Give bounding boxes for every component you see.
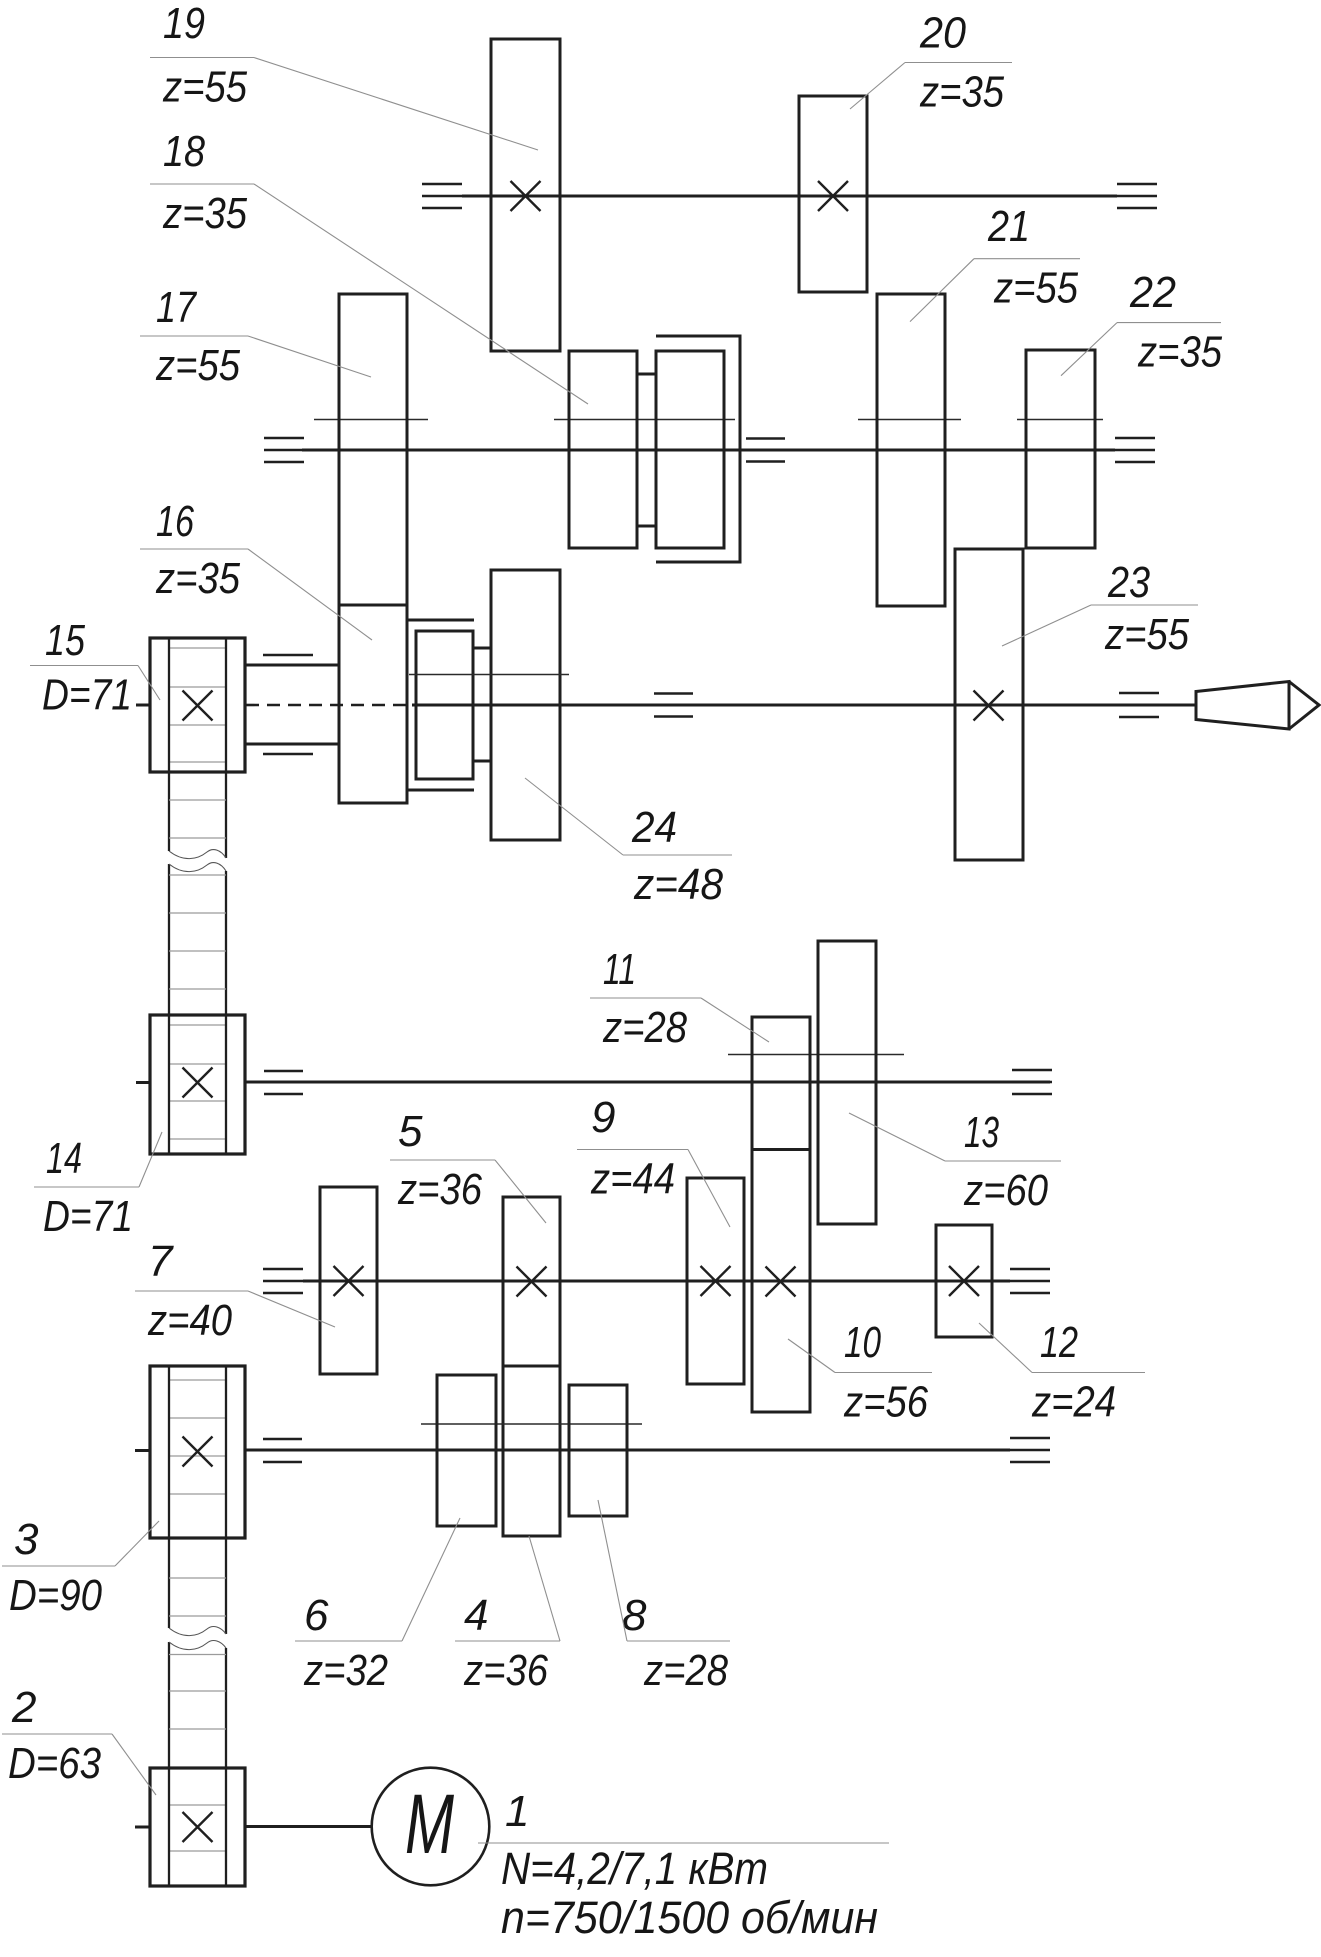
svg-text:18: 18 (163, 127, 205, 176)
pulley 14 inner line c (169, 1100, 226, 1102)
spindle cone (1196, 682, 1319, 730)
gear 18 (z=35) (569, 351, 637, 548)
label 18 z=35 (150, 127, 588, 404)
svg-text:M: M (405, 1777, 454, 1871)
svg-text:z=32: z=32 (303, 1646, 388, 1695)
bearing X of gear 9 (701, 1266, 731, 1296)
clutch link upper 18 (637, 373, 656, 376)
bearing X of gear 10 (766, 1267, 796, 1297)
pulley 2 inner line b (169, 1850, 226, 1852)
gear 22 (z=35) (1026, 350, 1095, 548)
shaft III dashed centreline (246, 704, 412, 707)
bearing X of gear 20 (818, 181, 848, 211)
divider gear 5 / gear 4 (503, 1365, 560, 1368)
gear 19 (z=55) (491, 39, 560, 351)
svg-text:z=48: z=48 (633, 860, 723, 909)
shaft I left bearing (422, 184, 462, 208)
pulley 15 inner line a (169, 647, 226, 649)
belt I rung f (169, 988, 226, 990)
motor M1 circle (372, 1768, 490, 1886)
motor letter M (405, 1777, 454, 1871)
belt II right edge lower (225, 1648, 227, 1886)
motor shaft left stub (135, 1826, 150, 1829)
bearing X of pulley 15 (183, 691, 213, 721)
svg-text:22: 22 (1129, 268, 1176, 317)
svg-text:7: 7 (148, 1237, 174, 1286)
svg-text:D=71: D=71 (43, 1192, 133, 1241)
svg-text:z=24: z=24 (1031, 1378, 1116, 1427)
svg-text:20: 20 (919, 9, 966, 58)
label 4 z=36 (455, 1536, 560, 1695)
bearing X of gear 12 (949, 1266, 979, 1296)
pulley 15 body (150, 638, 245, 772)
belt II left edge lower (168, 1642, 170, 1886)
belt I break wave lower (169, 863, 226, 872)
svg-text:z=35: z=35 (162, 189, 247, 238)
label 6 z=32 (295, 1518, 460, 1695)
svg-text:z=55: z=55 (162, 63, 247, 112)
bearing X of pulley 2 (183, 1812, 213, 1842)
svg-text:z=35: z=35 (1137, 328, 1222, 377)
gear block 5/4 outline (503, 1197, 560, 1536)
svg-text:D=63: D=63 (8, 1739, 101, 1788)
label 14 D=71 (34, 1132, 162, 1241)
shaft III left stub (136, 704, 150, 707)
mesh line shaft IV (728, 1054, 904, 1056)
pulley 15 inner line d (169, 761, 226, 763)
svg-text:16: 16 (156, 497, 194, 546)
svg-text:z=36: z=36 (397, 1165, 482, 1214)
svg-text:D=71: D=71 (42, 671, 132, 720)
svg-text:z=44: z=44 (590, 1155, 675, 1204)
label 24 z=48 (525, 778, 732, 909)
bracket rim around 18b (656, 336, 740, 562)
svg-text:13: 13 (964, 1108, 999, 1157)
belt I rung d (169, 912, 226, 914)
mesh line shaft II seg4 (1017, 419, 1103, 421)
pulley 14 inner line d (169, 1138, 226, 1140)
svg-text:1: 1 (505, 1787, 529, 1836)
clutch link lower 18 (637, 525, 656, 528)
svg-text:z=55: z=55 (1104, 610, 1189, 659)
svg-text:z=56: z=56 (843, 1378, 928, 1427)
belt I left edge upper (168, 638, 170, 851)
svg-text:9: 9 (591, 1093, 615, 1142)
svg-text:2: 2 (11, 1683, 36, 1732)
belt II rung c (169, 1654, 226, 1656)
bearing X of gear 7 (334, 1266, 364, 1296)
gear 24 (z=48) (491, 570, 560, 840)
gear block 17/16 outline (339, 294, 407, 803)
mesh line shaft II seg1 (314, 419, 428, 421)
pulley 3 inner line b (169, 1417, 226, 1419)
svg-text:z=35: z=35 (155, 554, 240, 603)
shaft IV left bearing (264, 1071, 303, 1094)
gear 21 (z=55) (877, 294, 945, 606)
belt II rung d (169, 1690, 226, 1692)
shaft V right bearing (1010, 1269, 1050, 1293)
bearing X of gear 5 (517, 1267, 547, 1297)
gear 6 (z=32) (437, 1375, 496, 1526)
svg-text:D=90: D=90 (9, 1571, 102, 1620)
pulley 3 body (150, 1366, 245, 1538)
svg-text:N=4,2/7,1 кВт: N=4,2/7,1 кВт (501, 1843, 768, 1894)
shaft VI left bearing (263, 1439, 302, 1462)
belt I rung a (169, 799, 226, 801)
label 16 z=35 (140, 497, 372, 640)
pulley 2 body (150, 1768, 245, 1886)
gear 20 (z=35) (799, 96, 867, 292)
belt I rung b (169, 837, 226, 839)
label 23 z=55 (1002, 558, 1198, 659)
label 3 D=90 (2, 1515, 159, 1620)
belt II left edge upper (168, 1366, 170, 1628)
gear 18b companion (656, 351, 724, 548)
gear 8 (z=28) (569, 1385, 627, 1516)
gear 7 (z=40) (320, 1187, 377, 1374)
divider gear 11 / gear 10 (752, 1148, 810, 1151)
belt I break wave upper (169, 850, 226, 859)
label 13 z=60 (849, 1108, 1061, 1215)
svg-text:24: 24 (631, 803, 677, 852)
label 1 motor (478, 1787, 889, 1943)
bearing X of pulley 3 (183, 1437, 213, 1467)
label 5 z=36 (390, 1107, 546, 1223)
belt I rung e (169, 950, 226, 952)
gear block 11/10 outline (752, 1017, 810, 1412)
svg-text:3: 3 (14, 1515, 39, 1564)
shaft III step lower (245, 743, 339, 746)
shaft III step upper (245, 664, 339, 667)
label 2 D=63 (2, 1683, 156, 1795)
svg-text:15: 15 (45, 616, 85, 665)
svg-text:z=28: z=28 (602, 1003, 687, 1052)
gear 9 (z=44) (687, 1178, 744, 1384)
shaft II middle bearing (746, 439, 785, 462)
label 21 z=55 (910, 202, 1080, 322)
bearing X of gear 19 (511, 181, 541, 211)
belt I right edge upper (225, 638, 227, 858)
shaft III solid line (412, 704, 1196, 707)
shaft II (302, 449, 1115, 452)
shaft VI right bearing (1010, 1438, 1050, 1462)
shaft IV (245, 1081, 1050, 1084)
shaft III middle bearing (654, 694, 693, 717)
svg-text:z=35: z=35 (919, 68, 1004, 117)
svg-text:5: 5 (398, 1107, 423, 1156)
shaft I right bearing (1117, 184, 1157, 208)
clutch link lower 24 (473, 760, 492, 763)
cap line above gear 16b (407, 619, 474, 622)
pulley 3 inner line a (169, 1379, 226, 1381)
belt II break wave upper (169, 1627, 226, 1636)
svg-text:z=40: z=40 (147, 1296, 232, 1345)
gear 23 (z=55) (955, 549, 1023, 860)
spline hub line upper (263, 654, 313, 657)
pulley 14 body (150, 1015, 245, 1154)
pulley 14 inner line b (169, 1063, 226, 1065)
svg-text:17: 17 (156, 283, 197, 332)
pulley 15 inner line c (169, 724, 226, 726)
svg-text:10: 10 (844, 1318, 881, 1367)
label 22 z=35 (1061, 268, 1222, 377)
svg-text:21: 21 (987, 202, 1030, 251)
belt II rung a (169, 1577, 226, 1579)
label 11 z=28 (590, 945, 769, 1052)
spline hub line lower (263, 753, 313, 756)
label 7 z=40 (135, 1237, 335, 1345)
svg-text:6: 6 (304, 1591, 329, 1640)
pulley 14 inner line a (169, 1024, 226, 1026)
cap line below gear 16b (407, 789, 474, 792)
mesh line shaft III (409, 674, 569, 676)
shaft II right bearing (1115, 438, 1155, 462)
clutch link upper 24 (473, 647, 492, 650)
gear 12 (z=24) (936, 1225, 992, 1337)
gear 13 (z=60) (818, 941, 876, 1224)
label 10 z=56 (788, 1318, 932, 1427)
mesh line shaft VI (421, 1423, 642, 1425)
pulley 3 inner line c (169, 1455, 226, 1457)
svg-text:23: 23 (1107, 558, 1150, 607)
belt II right edge upper (225, 1366, 227, 1634)
mesh line shaft II seg3 (858, 419, 961, 421)
label 19 z=55 (150, 0, 538, 150)
belt I right edge lower (225, 871, 227, 1154)
svg-text:4: 4 (464, 1591, 488, 1640)
pulley 15 inner line b (169, 686, 226, 688)
svg-text:z=60: z=60 (963, 1166, 1048, 1215)
pulley 3 inner line d (169, 1493, 226, 1495)
pulley 2 inner line a (169, 1804, 226, 1806)
shaft VI left stub (135, 1449, 150, 1452)
bearing X of pulley 14 (183, 1068, 213, 1098)
svg-text:z=28: z=28 (643, 1646, 728, 1695)
svg-text:z=55: z=55 (993, 264, 1078, 313)
belt I rung c (169, 874, 226, 876)
belt II break wave lower (169, 1641, 226, 1650)
svg-text:19: 19 (163, 0, 205, 48)
label 8 z=28 (598, 1500, 730, 1695)
shaft IV right bearing (1012, 1070, 1052, 1094)
motor shaft (245, 1825, 372, 1828)
shaft V left bearing (263, 1269, 303, 1293)
svg-text:z=36: z=36 (463, 1646, 548, 1695)
svg-text:14: 14 (46, 1134, 82, 1183)
shaft V (303, 1280, 1010, 1283)
svg-text:11: 11 (603, 945, 636, 994)
svg-text:n=750/1500 об/мин: n=750/1500 об/мин (501, 1892, 878, 1943)
svg-text:12: 12 (1040, 1318, 1078, 1367)
label 17 z=55 (140, 283, 371, 390)
label 12 z=24 (979, 1318, 1145, 1427)
belt II rung b (169, 1615, 226, 1617)
belt I left edge lower (168, 864, 170, 1154)
shaft I (462, 195, 1117, 198)
label 15 D=71 (30, 616, 160, 720)
sliding gear on shaft III (416, 631, 473, 779)
shaft IV left stub (136, 1081, 150, 1084)
divider gear 17 / gear 16 (339, 604, 407, 607)
label 20 z=35 (850, 9, 1012, 117)
label 9 z=44 (577, 1093, 730, 1227)
shaft VI (245, 1449, 1010, 1452)
shaft III right bearing (1119, 693, 1159, 717)
mesh line shaft II seg2 (554, 419, 735, 421)
shaft II left bearing (264, 438, 304, 462)
belt II rung e (169, 1728, 226, 1730)
bearing X of gear 23 (974, 691, 1004, 721)
svg-text:z=55: z=55 (155, 341, 240, 390)
